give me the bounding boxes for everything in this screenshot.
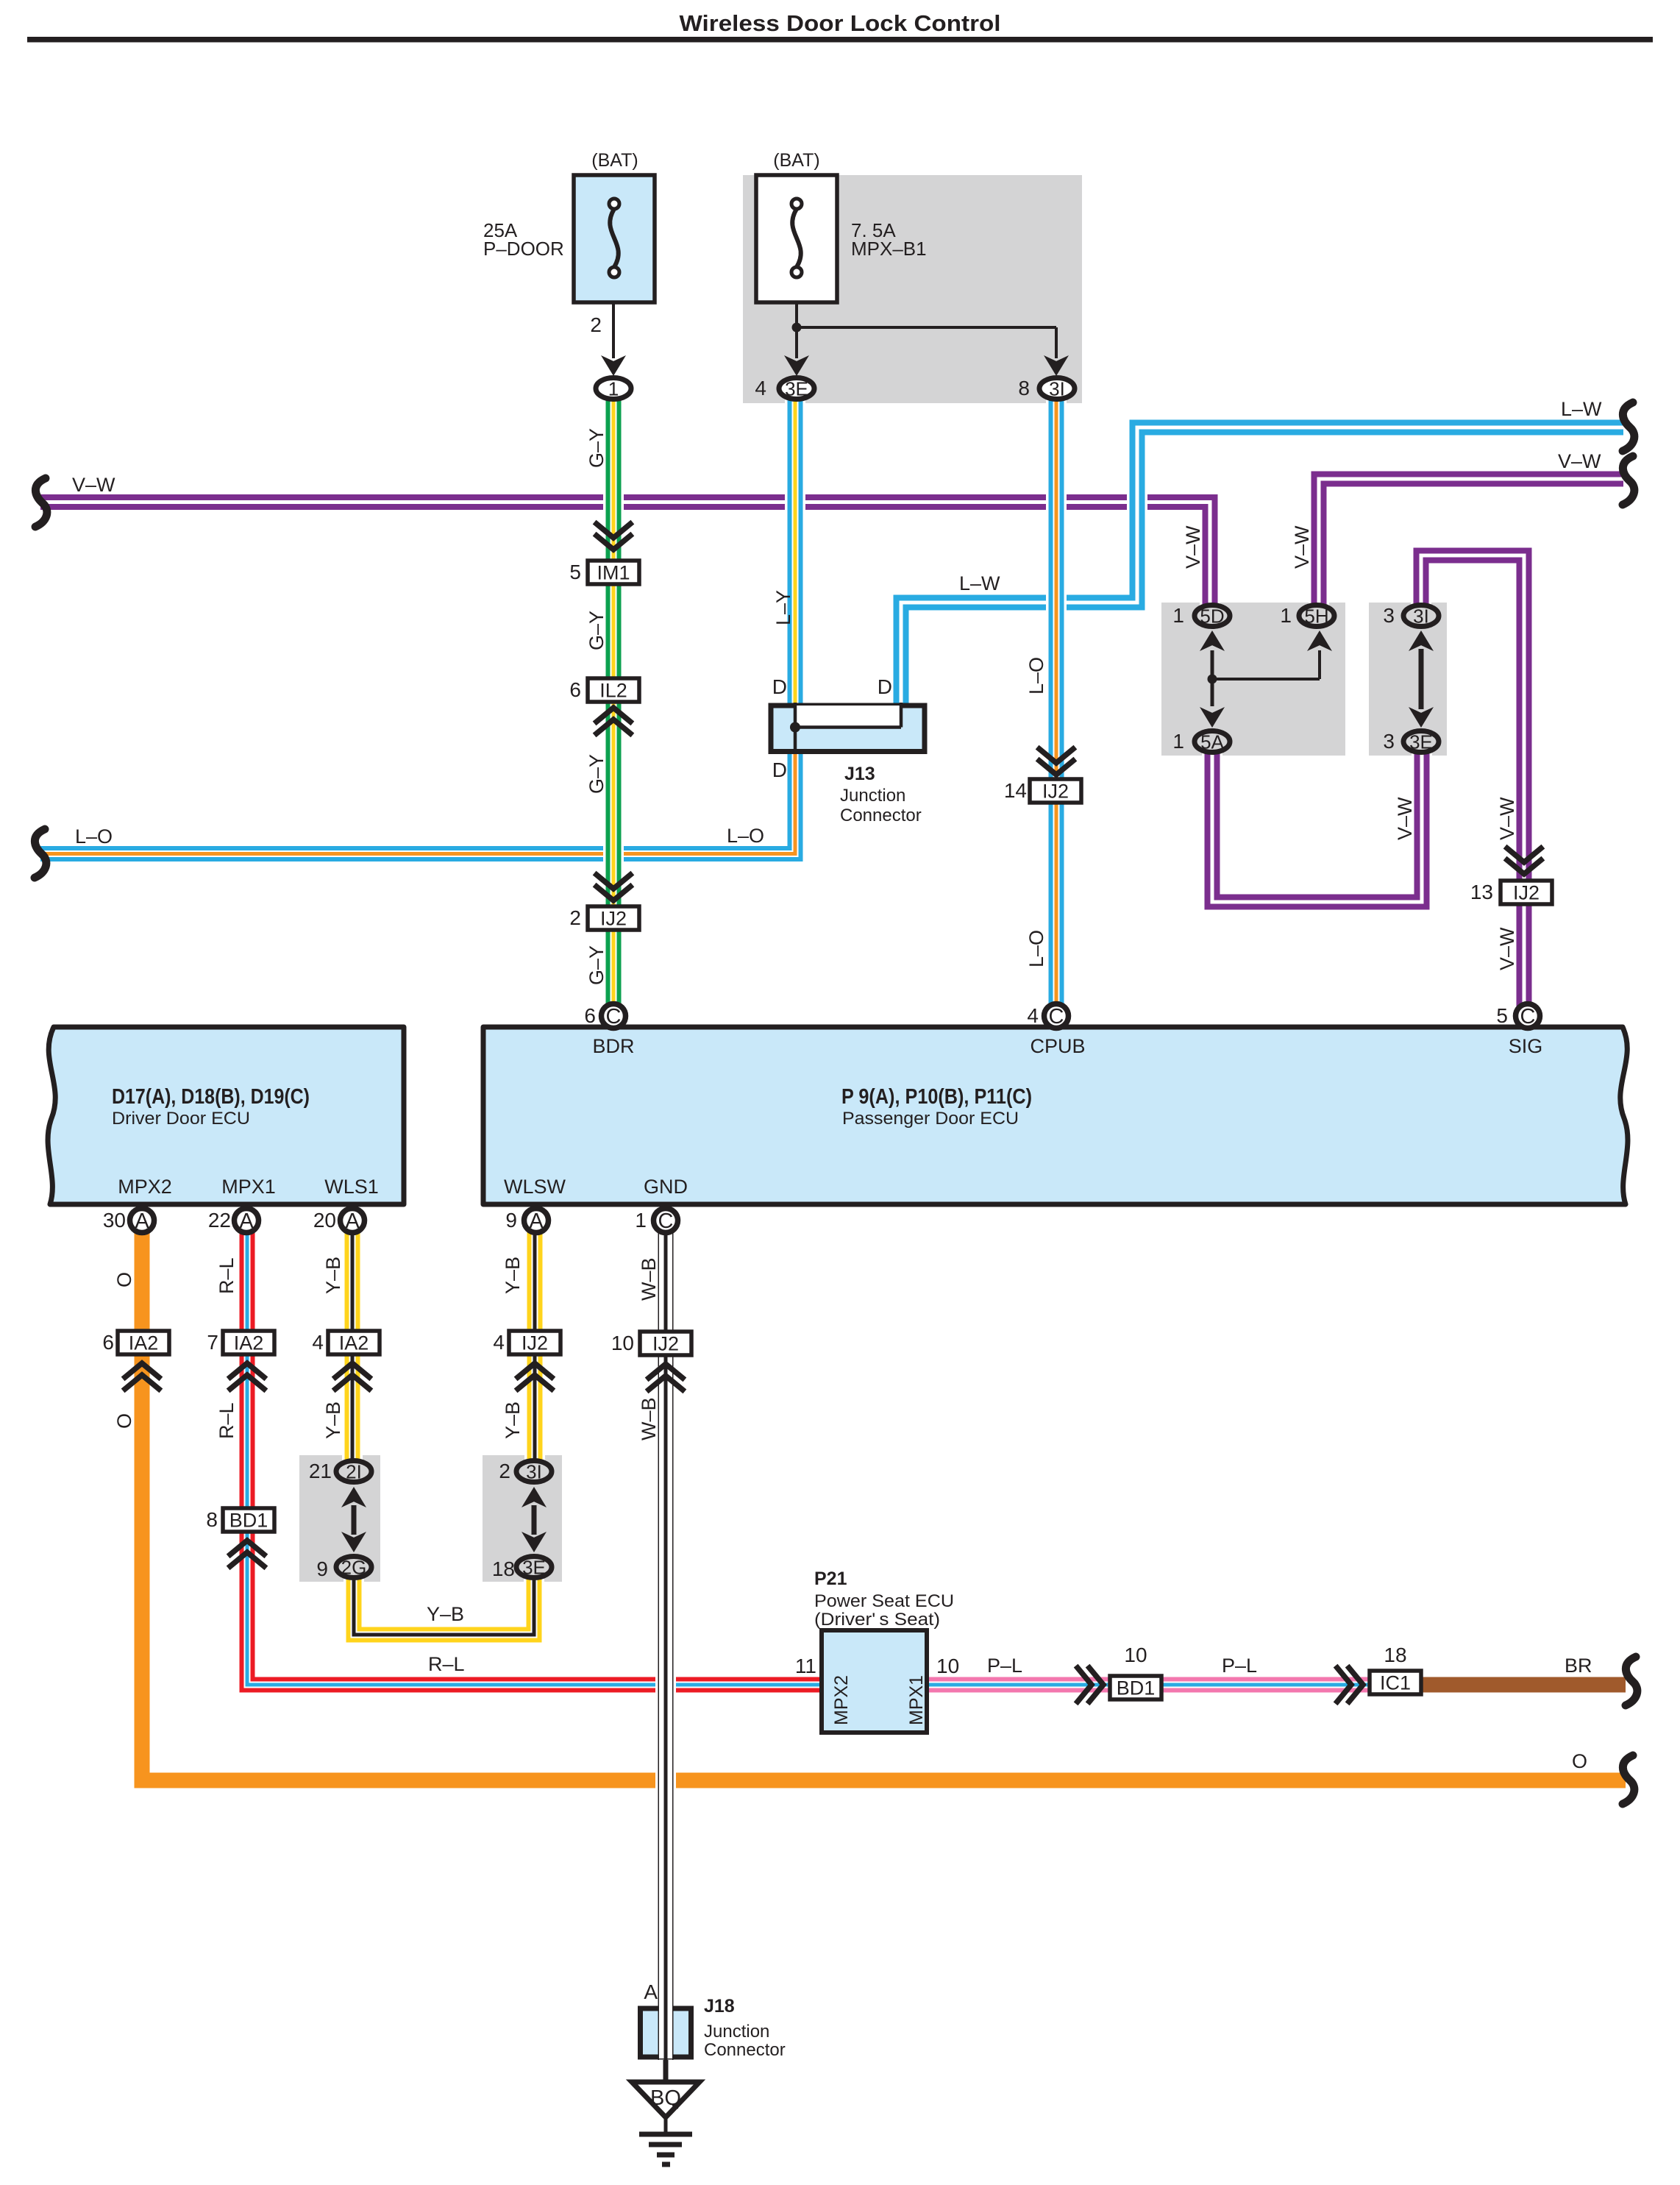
svg-text:1: 1 <box>1172 730 1184 753</box>
svg-text:21: 21 <box>309 1460 332 1482</box>
svg-text:1: 1 <box>1172 604 1184 627</box>
svg-text:11: 11 <box>795 1655 816 1677</box>
svg-text:GND: GND <box>644 1176 688 1198</box>
svg-text:G–Y: G–Y <box>585 611 608 650</box>
svg-text:BR: BR <box>1565 1655 1592 1677</box>
svg-text:4: 4 <box>312 1331 324 1354</box>
svg-text:5: 5 <box>1496 1004 1508 1027</box>
svg-text:2: 2 <box>499 1460 510 1482</box>
svg-text:L–O: L–O <box>75 825 113 848</box>
svg-text:6: 6 <box>584 1004 596 1027</box>
svg-text:18: 18 <box>1384 1644 1406 1666</box>
svg-text:3I: 3I <box>1049 378 1065 400</box>
svg-text:4: 4 <box>1027 1004 1039 1027</box>
svg-text:R–L: R–L <box>216 1257 238 1294</box>
svg-text:Wireless Door Lock Control: Wireless Door Lock Control <box>680 10 1001 36</box>
svg-text:10: 10 <box>936 1655 959 1677</box>
svg-text:CPUB: CPUB <box>1030 1035 1085 1057</box>
svg-text:18: 18 <box>492 1557 515 1580</box>
svg-text:5H: 5H <box>1304 605 1328 628</box>
svg-text:Y–B: Y–B <box>322 1257 344 1294</box>
svg-text:V–W: V–W <box>1394 797 1416 840</box>
svg-text:A: A <box>644 1980 658 2003</box>
svg-text:C: C <box>1520 1005 1536 1028</box>
svg-text:A: A <box>345 1209 360 1233</box>
svg-text:MPX–B1: MPX–B1 <box>851 238 927 260</box>
svg-text:C: C <box>1049 1005 1064 1028</box>
svg-text:Y–B: Y–B <box>427 1603 464 1625</box>
svg-text:2I: 2I <box>346 1461 362 1483</box>
svg-text:2G: 2G <box>341 1557 367 1579</box>
svg-text:V–W: V–W <box>1496 797 1518 840</box>
svg-text:R–L: R–L <box>216 1402 238 1439</box>
svg-text:Junction: Junction <box>704 2022 769 2042</box>
svg-text:MPX2: MPX2 <box>831 1675 852 1725</box>
svg-text:W–B: W–B <box>638 1397 660 1440</box>
svg-text:13: 13 <box>1470 881 1493 903</box>
svg-text:8: 8 <box>1018 377 1030 399</box>
svg-text:IA2: IA2 <box>234 1332 264 1354</box>
svg-text:10: 10 <box>1124 1644 1147 1666</box>
svg-text:1: 1 <box>635 1209 647 1232</box>
svg-text:P–DOOR: P–DOOR <box>483 238 564 260</box>
svg-text:WLSW: WLSW <box>504 1176 566 1198</box>
svg-text:6: 6 <box>102 1331 114 1354</box>
svg-text:5: 5 <box>569 561 581 583</box>
svg-text:O: O <box>1572 1750 1587 1772</box>
svg-text:IJ2: IJ2 <box>1042 781 1069 803</box>
svg-text:L–W: L–W <box>959 572 1000 594</box>
svg-text:(BAT): (BAT) <box>773 150 819 171</box>
svg-text:L–W: L–W <box>1561 398 1602 420</box>
svg-text:Junction: Junction <box>840 786 905 806</box>
svg-text:D: D <box>772 675 787 698</box>
svg-text:V–W: V–W <box>1291 525 1313 569</box>
svg-text:IA2: IA2 <box>339 1332 369 1354</box>
svg-text:IM1: IM1 <box>597 562 630 584</box>
svg-text:G–Y: G–Y <box>585 945 608 985</box>
svg-text:A: A <box>135 1209 149 1233</box>
svg-text:3E: 3E <box>522 1557 546 1579</box>
svg-text:L–O: L–O <box>727 825 764 847</box>
svg-text:IC1: IC1 <box>1380 1672 1411 1694</box>
svg-text:V–W: V–W <box>1496 927 1518 970</box>
svg-text:C: C <box>658 1209 674 1233</box>
svg-text:5A: 5A <box>1200 731 1224 753</box>
svg-text:4: 4 <box>493 1331 505 1354</box>
svg-text:IJ2: IJ2 <box>522 1332 548 1354</box>
svg-text:BQ: BQ <box>650 2086 681 2110</box>
svg-text:9: 9 <box>316 1557 328 1580</box>
svg-text:2: 2 <box>590 313 602 336</box>
svg-text:J18: J18 <box>704 1996 735 2017</box>
svg-text:V–W: V–W <box>1558 450 1601 472</box>
svg-text:10: 10 <box>611 1332 634 1354</box>
svg-text:R–L: R–L <box>428 1653 465 1675</box>
svg-text:7: 7 <box>207 1331 218 1354</box>
svg-text:6: 6 <box>569 678 581 701</box>
svg-text:D17(A), D18(B), D19(C): D17(A), D18(B), D19(C) <box>112 1085 310 1109</box>
svg-text:P21: P21 <box>814 1568 847 1589</box>
svg-text:P–L: P–L <box>987 1655 1022 1677</box>
svg-text:D: D <box>772 758 787 781</box>
svg-text:8: 8 <box>206 1508 218 1531</box>
svg-text:IJ2: IJ2 <box>600 908 627 930</box>
svg-text:Y–B: Y–B <box>502 1257 524 1294</box>
svg-text:J13: J13 <box>844 764 875 784</box>
svg-text:MPX1: MPX1 <box>906 1675 927 1725</box>
svg-text:14: 14 <box>1004 779 1027 802</box>
svg-text:V–W: V–W <box>72 474 115 496</box>
svg-text:3E: 3E <box>1409 731 1433 753</box>
svg-text:L–Y: L–Y <box>772 590 794 625</box>
svg-text:Driver Door ECU: Driver Door ECU <box>112 1109 250 1129</box>
svg-text:1: 1 <box>1280 604 1292 627</box>
svg-text:MPX2: MPX2 <box>118 1176 172 1198</box>
svg-text:5D: 5D <box>1200 605 1224 628</box>
svg-text:22: 22 <box>208 1209 231 1232</box>
svg-text:O: O <box>113 1272 135 1287</box>
svg-text:3E: 3E <box>785 378 808 400</box>
svg-text:BDR: BDR <box>592 1035 634 1057</box>
svg-text:WLS1: WLS1 <box>324 1176 379 1198</box>
svg-text:Y–B: Y–B <box>502 1401 524 1439</box>
svg-text:3I: 3I <box>526 1461 542 1483</box>
svg-text:BD1: BD1 <box>229 1510 268 1532</box>
svg-text:IJ2: IJ2 <box>1513 882 1540 904</box>
svg-text:(Driver' s Seat): (Driver' s Seat) <box>814 1610 940 1630</box>
svg-text:IL2: IL2 <box>599 680 627 702</box>
svg-text:4: 4 <box>755 377 766 399</box>
svg-text:IA2: IA2 <box>129 1332 159 1354</box>
svg-text:A: A <box>239 1209 254 1233</box>
svg-text:D: D <box>878 675 892 698</box>
svg-text:1: 1 <box>608 378 619 400</box>
svg-text:Passenger Door ECU: Passenger Door ECU <box>842 1109 1019 1129</box>
svg-text:3I: 3I <box>1413 605 1429 628</box>
svg-text:IJ2: IJ2 <box>652 1333 679 1355</box>
svg-text:G–Y: G–Y <box>585 428 608 468</box>
svg-text:2: 2 <box>569 906 581 929</box>
svg-text:P–L: P–L <box>1222 1655 1257 1677</box>
svg-text:P 9(A), P10(B), P11(C): P 9(A), P10(B), P11(C) <box>841 1085 1032 1109</box>
svg-text:3: 3 <box>1383 730 1395 753</box>
svg-text:L–O: L–O <box>1025 930 1047 967</box>
svg-text:G–Y: G–Y <box>585 754 608 794</box>
svg-text:C: C <box>606 1005 622 1028</box>
svg-text:Connector: Connector <box>840 806 922 825</box>
svg-text:30: 30 <box>103 1209 126 1232</box>
svg-text:(BAT): (BAT) <box>591 150 638 171</box>
svg-text:BD1: BD1 <box>1117 1677 1156 1699</box>
svg-text:9: 9 <box>505 1209 517 1232</box>
svg-text:SIG: SIG <box>1509 1035 1543 1057</box>
svg-text:MPX1: MPX1 <box>221 1176 276 1198</box>
svg-text:A: A <box>529 1209 544 1233</box>
svg-text:W–B: W–B <box>638 1257 660 1301</box>
svg-text:L–O: L–O <box>1025 657 1047 694</box>
svg-text:Connector: Connector <box>704 2040 786 2060</box>
svg-text:O: O <box>113 1413 135 1429</box>
svg-text:Y–B: Y–B <box>322 1401 344 1439</box>
svg-text:V–W: V–W <box>1182 525 1204 569</box>
svg-text:20: 20 <box>313 1209 336 1232</box>
svg-text:3: 3 <box>1383 604 1395 627</box>
svg-text:Power Seat ECU: Power Seat ECU <box>814 1591 954 1611</box>
